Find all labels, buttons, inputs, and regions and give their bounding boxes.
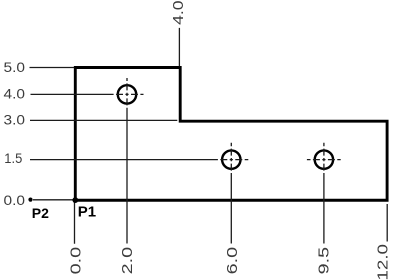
svg-text:5.0: 5.0 — [4, 60, 26, 75]
svg-text:9.5: 9.5 — [316, 247, 333, 275]
svg-text:6.0: 6.0 — [224, 247, 241, 275]
svg-text:3.0: 3.0 — [4, 113, 26, 128]
svg-text:1.5: 1.5 — [4, 151, 22, 166]
svg-text:P2: P2 — [32, 205, 49, 221]
svg-text:0.0: 0.0 — [67, 247, 84, 275]
svg-text:0.0: 0.0 — [4, 193, 26, 208]
svg-text:4.0: 4.0 — [4, 86, 26, 101]
svg-text:2.0: 2.0 — [119, 247, 136, 275]
svg-text:12.0: 12.0 — [375, 244, 392, 280]
svg-text:P1: P1 — [78, 203, 96, 220]
svg-text:4.0: 4.0 — [170, 0, 187, 25]
